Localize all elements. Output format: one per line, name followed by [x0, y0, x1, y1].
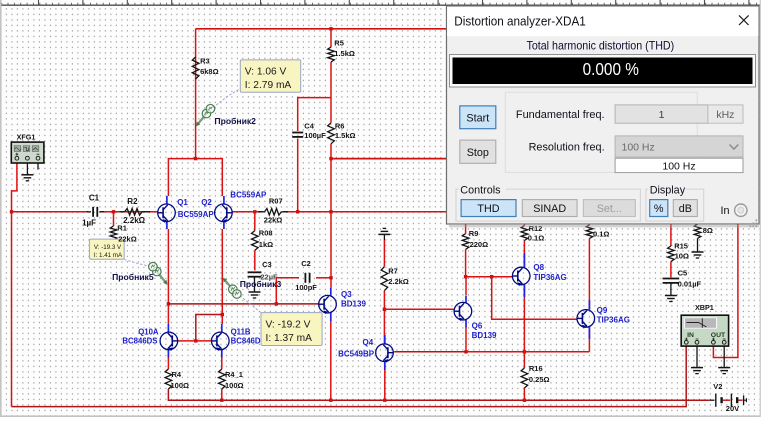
- wire: Q6 collector to R9: [465, 277, 467, 295]
- wire: R4 bottom to rail: [168, 389, 709, 400]
- transistor Q2 BC559AP: [201, 191, 267, 230]
- svg-text:kHz: kHz: [716, 109, 734, 121]
- svg-text:R6: R6: [335, 122, 345, 131]
- dialog Stop button: [460, 140, 496, 163]
- wire: R7 ground stem x=384.4: [383, 240, 385, 267]
- resistor R4_1 100: [219, 369, 244, 390]
- wire: Q8 emitter drop: [523, 286, 525, 352]
- capacitor C1 1uF: [82, 194, 104, 228]
- ground (C5): [665, 295, 677, 297]
- svg-text:BC549BP: BC549BP: [338, 350, 375, 359]
- svg-text:Fundamental freq.: Fundamental freq.: [516, 109, 605, 121]
- wire: speaker resistor leg x=697.5: [697, 223, 699, 226]
- dialog dB button: [673, 200, 697, 217]
- wire: R15 to C5: [670, 262, 672, 278]
- ground (8 Ohm load): [692, 251, 704, 253]
- dialog bottom shadow: [449, 225, 759, 227]
- node: R08 tap: [253, 210, 256, 213]
- svg-text:%: %: [654, 203, 664, 215]
- node: C4 tap: [296, 210, 299, 213]
- transistor Q11B BC846D: [212, 324, 261, 358]
- resistor R16 0.25: [521, 364, 549, 388]
- svg-text:XBP1: XBP1: [695, 303, 714, 312]
- svg-text:0.01µF: 0.01µF: [678, 279, 702, 288]
- wire: Q6 emitter drop: [465, 328, 467, 352]
- svg-text:Set...: Set...: [597, 203, 622, 215]
- resistor R07 22k: [258, 196, 288, 224]
- svg-text:Q2: Q2: [201, 198, 212, 207]
- svg-text:Q9: Q9: [597, 306, 608, 315]
- svg-text:1: 1: [659, 109, 665, 121]
- svg-text:I: 1.37 mA: I: 1.37 mA: [266, 333, 313, 344]
- node: Q6 emitter join: [464, 350, 467, 353]
- node: R5 top junction: [329, 27, 332, 30]
- dialog unit box: kHz: [708, 105, 743, 123]
- svg-text:0.000 %: 0.000 %: [583, 59, 639, 79]
- svg-text:22kΩ: 22kΩ: [264, 216, 283, 225]
- svg-text:Stop: Stop: [467, 147, 489, 159]
- svg-text:0.1Ω: 0.1Ω: [528, 233, 544, 242]
- svg-text:V: -19.3 V: V: -19.3 V: [94, 244, 122, 251]
- svg-text:R5: R5: [334, 39, 344, 48]
- wire: Q9 base branch: [492, 277, 578, 320]
- svg-text:Distortion analyzer-XDA1: Distortion analyzer-XDA1: [454, 13, 586, 28]
- svg-text:BC846D: BC846D: [231, 337, 261, 346]
- capacitor C2 100pF: [295, 259, 317, 292]
- capacitor C3 22uF: [248, 260, 278, 292]
- node: R4_1 on rail: [220, 399, 223, 402]
- resistor R7 2.2k: [381, 266, 409, 290]
- wire: Q4 base y=351.8: [394, 351, 466, 353]
- svg-text:220Ω: 220Ω: [470, 240, 489, 249]
- window border bottom: [0, 415, 761, 417]
- wire: R3 branch vertical x=195.6: [195, 29, 197, 159]
- node: Q4 emitter on rail: [383, 399, 386, 402]
- dialog groupbox: Display: [646, 183, 704, 221]
- wire: Q1 emitter drop x=168.4: [167, 229, 169, 304]
- resistor R14 8 Ohm speaker load: [694, 224, 713, 238]
- wire: Q1-Q2 collector link y=158.6: [168, 159, 222, 196]
- bode plotter XBP1: [681, 303, 728, 346]
- ground (XBP1 IN-): [691, 367, 703, 369]
- node: Q3 emitter on rail: [329, 399, 332, 402]
- wire: R1 stub: [113, 212, 115, 226]
- svg-text:Пробник5: Пробник5: [112, 272, 154, 282]
- node: Q8 base node: [464, 275, 467, 278]
- svg-text:100µF: 100µF: [304, 131, 326, 140]
- ground (C3): [249, 291, 261, 293]
- resistor R1 22k: [110, 226, 117, 240]
- resistor R15 10: [668, 241, 689, 261]
- node: Q9 branch: [490, 275, 493, 278]
- wire: R16 leg: [523, 352, 525, 368]
- svg-text:Controls: Controls: [460, 184, 501, 196]
- svg-text:SINAD: SINAD: [533, 203, 566, 215]
- wire: Q8 base feed y=276.7: [466, 276, 513, 278]
- transistor Q9 TIP36AG: [577, 300, 630, 339]
- svg-text:THD: THD: [477, 203, 499, 215]
- svg-text:100 Hz: 100 Hz: [662, 160, 695, 172]
- resistor R08 1k: [252, 228, 274, 250]
- svg-text:XFG1: XFG1: [17, 132, 36, 141]
- svg-text:V: 1.06 V: V: 1.06 V: [245, 67, 287, 78]
- wire: R5/R6 vertical x=331: [330, 29, 332, 47]
- svg-text:Q8: Q8: [533, 263, 544, 272]
- transistor Q8 TIP36AG: [512, 253, 566, 297]
- svg-text:Q10A: Q10A: [138, 327, 159, 336]
- ground (XFG1 common): [21, 174, 33, 176]
- svg-text:TIP36AG: TIP36AG: [597, 315, 630, 324]
- wire: R13 vertical x=589.4: [588, 223, 590, 226]
- svg-text:R07: R07: [269, 196, 283, 205]
- resistor R3 6k8: [192, 57, 218, 80]
- svg-text:I: 1.41 mA: I: 1.41 mA: [94, 252, 123, 259]
- svg-text:1kΩ: 1kΩ: [259, 240, 273, 249]
- probe Пробник2: [196, 89, 256, 127]
- svg-text:Q11B: Q11B: [231, 327, 251, 336]
- probe Пробник3: [223, 278, 282, 313]
- resistor R9 220: [462, 229, 488, 249]
- svg-text:Пробник2: Пробник2: [214, 116, 256, 126]
- tooltip probe3 V/I readout: [261, 313, 322, 346]
- svg-text:Total harmonic distortion (THD: Total harmonic distortion (THD): [527, 38, 675, 52]
- svg-text:Resolution freq.: Resolution freq.: [529, 141, 605, 153]
- transistor Q4 BC549BP: [338, 335, 393, 370]
- wire: Q11 emitter to R4_1: [221, 357, 223, 369]
- node: VAS line crossing: [329, 210, 332, 213]
- svg-text:100pF: 100pF: [295, 283, 317, 292]
- dialog SINAD button: [522, 200, 577, 217]
- dialog In terminal: [721, 204, 748, 217]
- svg-text:V: -19.2 V: V: -19.2 V: [266, 320, 311, 331]
- wire: R08 branch x=254.8: [254, 212, 256, 231]
- svg-text:Q4: Q4: [363, 338, 374, 347]
- wire: C4 bottom lead to main wire: [297, 139, 299, 212]
- node: R6 line on VAS rail: [329, 157, 332, 160]
- ground (R7 top, inverted): [383, 227, 386, 229]
- wire: C2 link y=277.8: [276, 277, 299, 279]
- capacitor C5 0.01uF: [663, 268, 702, 295]
- dialog % button: [650, 200, 668, 217]
- dialog THD readout display: [450, 55, 756, 88]
- svg-text:Q3: Q3: [341, 290, 352, 299]
- svg-text:1.5kΩ: 1.5kΩ: [335, 131, 356, 140]
- resistor R6 1.5k: [328, 122, 356, 144]
- wire: top supply rail y=29: [196, 28, 447, 30]
- svg-text:100Ω: 100Ω: [171, 381, 190, 390]
- wire: XBP1 OUT- ground lead: [723, 346, 725, 368]
- node: mirror tie: [221, 313, 224, 316]
- svg-text:C2: C2: [301, 259, 311, 268]
- svg-text:100Ω: 100Ω: [225, 381, 244, 390]
- node: base link tap: [194, 339, 197, 342]
- wire: output node y=351.8: [466, 351, 589, 353]
- battery V2 20V: [710, 382, 747, 413]
- transistor Q3 BD139: [319, 288, 367, 321]
- svg-text:R2: R2: [127, 197, 138, 206]
- svg-text:20V: 20V: [726, 404, 739, 413]
- transistor Q1 BC559AP: [158, 196, 215, 229]
- svg-text:1.5kΩ: 1.5kΩ: [334, 49, 355, 58]
- svg-text:0.1Ω: 0.1Ω: [593, 229, 609, 238]
- wire: Q9 collector drop: [588, 328, 590, 352]
- ruler (top): [0, 0, 761, 5]
- wire: XFG1 output drop x=16.9 then x=11.5: [12, 163, 17, 407]
- wire: C2 left leg x=276.3: [275, 278, 277, 304]
- svg-text:10Ω: 10Ω: [675, 251, 689, 260]
- svg-text:R9: R9: [469, 229, 479, 238]
- svg-text:In: In: [721, 205, 730, 217]
- dialog THD button: [461, 200, 516, 217]
- dialog: Distortion analyzer-XDA1: [447, 6, 760, 224]
- svg-text:C1: C1: [89, 194, 100, 203]
- wire: Q10-Q11 base link y=340.9: [178, 340, 212, 342]
- dialog dropdown: 100 Hz: [615, 136, 743, 157]
- wire: feedback bus y=406.6 to XBP1: [12, 346, 687, 407]
- svg-text:BD139: BD139: [472, 331, 497, 340]
- node: Q8 leg join: [523, 350, 526, 353]
- wire: mirror base jog y=314.5: [196, 315, 223, 341]
- svg-text:dB: dB: [679, 203, 692, 215]
- wire: Q3 base feed y=303.9: [168, 303, 318, 305]
- wire: Q10 emitter to R4: [167, 357, 169, 369]
- svg-text:C3: C3: [262, 260, 272, 269]
- wire: input signal rail y=211.8: [12, 211, 89, 213]
- dialog Start button: [460, 106, 496, 129]
- svg-text:TIP36AG: TIP36AG: [533, 273, 566, 282]
- node: R16 on rail: [523, 399, 526, 402]
- svg-text:BC559AP: BC559AP: [230, 191, 267, 200]
- svg-text:Q6: Q6: [472, 322, 483, 331]
- node: R1 tap: [112, 210, 115, 213]
- svg-text:R15: R15: [674, 241, 688, 250]
- node: R3 junction: [194, 157, 197, 160]
- tooltip probe2 V/I readout: [240, 60, 300, 92]
- svg-text:6k8Ω: 6k8Ω: [200, 67, 219, 76]
- svg-text:Пробник3: Пробник3: [240, 279, 282, 289]
- svg-text:Start: Start: [466, 113, 489, 125]
- wire: VAS rail y=158.6 right segment: [331, 158, 447, 160]
- node: Q3 base tee: [167, 302, 170, 305]
- svg-text:C5: C5: [678, 268, 688, 277]
- svg-text:R7: R7: [388, 266, 398, 275]
- svg-text:I: 2.79 mA: I: 2.79 mA: [245, 80, 292, 91]
- svg-text:22kΩ: 22kΩ: [118, 234, 137, 243]
- dialog close button: [739, 15, 749, 25]
- wire: R9 vertical x=465.6: [465, 224, 467, 234]
- window border left: [0, 0, 2, 417]
- svg-text:R16: R16: [529, 364, 543, 373]
- resistor R4 100: [165, 369, 189, 390]
- svg-text:1µF: 1µF: [82, 219, 96, 228]
- wire: XBP1 IN- ground lead: [696, 346, 698, 368]
- svg-text:100 Hz: 100 Hz: [622, 141, 655, 153]
- svg-text:2.2kΩ: 2.2kΩ: [388, 277, 409, 286]
- dialog input: fundamental value 1: [615, 105, 708, 123]
- svg-text:R3: R3: [200, 57, 210, 66]
- resistor R13 0.1: [586, 225, 609, 239]
- node: driver node: [383, 308, 386, 311]
- svg-text:R08: R08: [259, 228, 273, 237]
- node: C2 tee: [275, 302, 278, 305]
- resistor R5 1.5k: [328, 39, 355, 62]
- svg-text:C4: C4: [304, 122, 314, 131]
- window border right: [760, 0, 761, 417]
- node: C2 to VAS line: [329, 276, 332, 279]
- dialog readout box: 100 Hz: [615, 158, 743, 172]
- capacitor C4 100uF: [292, 122, 326, 141]
- wire: analyzer input drop x=737.9: [713, 224, 738, 358]
- svg-text:BC559AP: BC559AP: [178, 210, 215, 219]
- svg-text:IN: IN: [687, 332, 694, 339]
- wire: Q3 emitter drop x=330.8: [330, 320, 332, 400]
- svg-text:R4: R4: [172, 370, 182, 379]
- dialog resize grip: [750, 220, 758, 228]
- resistor R12 0.1: [521, 224, 544, 243]
- svg-text:BC846DS: BC846DS: [122, 337, 157, 346]
- resistor R2 2.2k: [120, 197, 151, 225]
- transistor Q6 BD139: [454, 296, 497, 341]
- ground (XBP1 OUT-): [718, 367, 730, 369]
- wire: Q4 emitter drop: [384, 363, 386, 401]
- wire: R7 to Q4 collector x=384.4: [383, 291, 385, 343]
- svg-text:BD139: BD139: [341, 300, 366, 309]
- wire: C4 top jog y=97.6: [298, 98, 331, 131]
- wire: R12 vertical x=524.4: [523, 224, 525, 226]
- svg-text:0.25Ω: 0.25Ω: [529, 375, 550, 384]
- probe Пробник5: [112, 260, 168, 285]
- resistor R1 labels: [117, 224, 136, 244]
- svg-text:R1: R1: [117, 224, 127, 233]
- wire: Q2 emitter drop x=222.3: [221, 229, 223, 324]
- wire: Q6 base feed y=309.3: [384, 308, 454, 310]
- transistor Q10A BC846DS: [122, 324, 177, 358]
- function generator XFG1: [11, 132, 44, 174]
- svg-text:R4_1: R4_1: [225, 370, 243, 379]
- dialog Set... button (disabled): [583, 200, 635, 217]
- dialog inner panel: [505, 92, 697, 172]
- dialog groupbox: Controls: [456, 183, 640, 221]
- svg-text:V2: V2: [713, 382, 722, 391]
- tooltip probe5 V/I readout: [89, 239, 124, 259]
- svg-text:Q1: Q1: [177, 198, 188, 207]
- node: input rail start: [10, 210, 13, 213]
- svg-text:Display: Display: [650, 184, 686, 196]
- wire: R15 feed x=670.9: [670, 224, 672, 247]
- wire: R4_1 bottom: [221, 389, 223, 400]
